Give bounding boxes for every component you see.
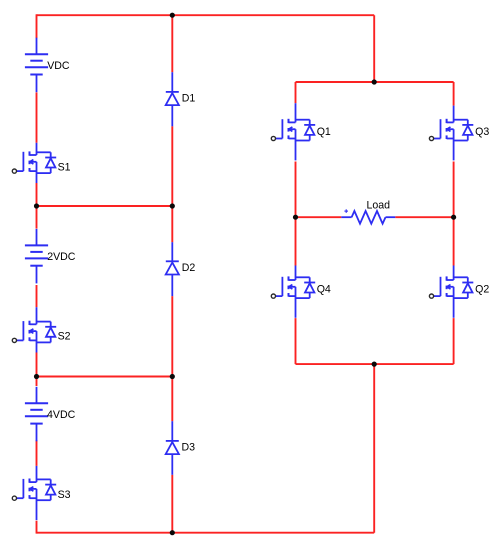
diode D2 <box>166 242 179 296</box>
wire load right <box>395 216 453 218</box>
wire bottom rail <box>37 532 375 534</box>
wire hbridge right seg2 <box>453 162 455 266</box>
svg-text:Q3: Q3 <box>475 126 489 138</box>
wire left col seg1 <box>36 14 38 38</box>
node B right (D2-D3) <box>170 374 175 379</box>
svg-text:S1: S1 <box>58 162 71 174</box>
wire node row1 <box>37 205 173 207</box>
transistor Q1 <box>271 103 315 160</box>
battery VDC <box>25 38 48 92</box>
svg-text:D3: D3 <box>182 442 196 454</box>
wire mid col seg3 <box>171 296 173 421</box>
svg-text:VDC: VDC <box>47 60 70 72</box>
junction bottom rail / D3 <box>170 530 175 535</box>
battery 4VDC <box>25 387 48 442</box>
wire mid col seg1 <box>171 15 173 72</box>
wire left col seg5 <box>36 353 38 387</box>
wire left col seg3 <box>36 183 38 229</box>
transistor S2 <box>12 307 56 352</box>
svg-text:S3: S3 <box>58 489 71 501</box>
wire hbridge right seg3 <box>453 318 455 364</box>
junction hbridge top center <box>372 79 377 84</box>
junction load right <box>451 215 456 220</box>
wire mid col seg4 <box>171 475 173 533</box>
wire top-right drop <box>373 15 375 82</box>
wire top rail <box>37 14 375 16</box>
wire node row2 <box>37 376 173 378</box>
node A left <box>34 203 39 208</box>
svg-text:S2: S2 <box>58 331 71 343</box>
svg-text:Q4: Q4 <box>317 284 331 296</box>
svg-text:Q1: Q1 <box>317 126 331 138</box>
wire bottom-center drop <box>373 364 375 533</box>
transistor Q3 <box>429 106 473 161</box>
svg-text:D2: D2 <box>182 262 196 274</box>
diode D1 <box>166 72 179 126</box>
svg-text:Load: Load <box>367 199 391 211</box>
wire left col seg2 <box>36 92 38 142</box>
wire mid col seg2 <box>171 126 173 242</box>
wire hbridge top <box>296 81 454 83</box>
wire hbridge left seg3 <box>295 318 297 364</box>
resistor Load <box>341 209 395 223</box>
svg-text:4VDC: 4VDC <box>47 409 76 421</box>
wire left col seg6 <box>36 440 38 466</box>
node A right (D1-D2) <box>170 203 175 208</box>
svg-text:2VDC: 2VDC <box>47 251 76 263</box>
wire hbridge bottom <box>296 363 454 365</box>
junction hbridge bottom center <box>372 362 377 367</box>
transistor S1 <box>12 143 56 183</box>
transistor Q2 <box>429 266 473 318</box>
junction load left <box>293 215 298 220</box>
wire hbridge left seg1 <box>295 82 297 103</box>
battery 2VDC <box>25 229 48 284</box>
wire left col seg4 <box>36 285 38 307</box>
wire hbridge left seg2 <box>295 162 297 266</box>
svg-text:D1: D1 <box>182 93 196 105</box>
transistor Q4 <box>271 266 315 318</box>
node B left <box>34 374 39 379</box>
wire left col seg7 <box>36 521 38 534</box>
svg-text:Q2: Q2 <box>475 284 489 296</box>
wire hbridge right seg1 <box>453 82 455 106</box>
transistor S3 <box>12 466 56 520</box>
wire load left <box>296 216 342 218</box>
junction top rail / D1 branch <box>170 13 175 18</box>
diode D3 <box>166 421 179 475</box>
